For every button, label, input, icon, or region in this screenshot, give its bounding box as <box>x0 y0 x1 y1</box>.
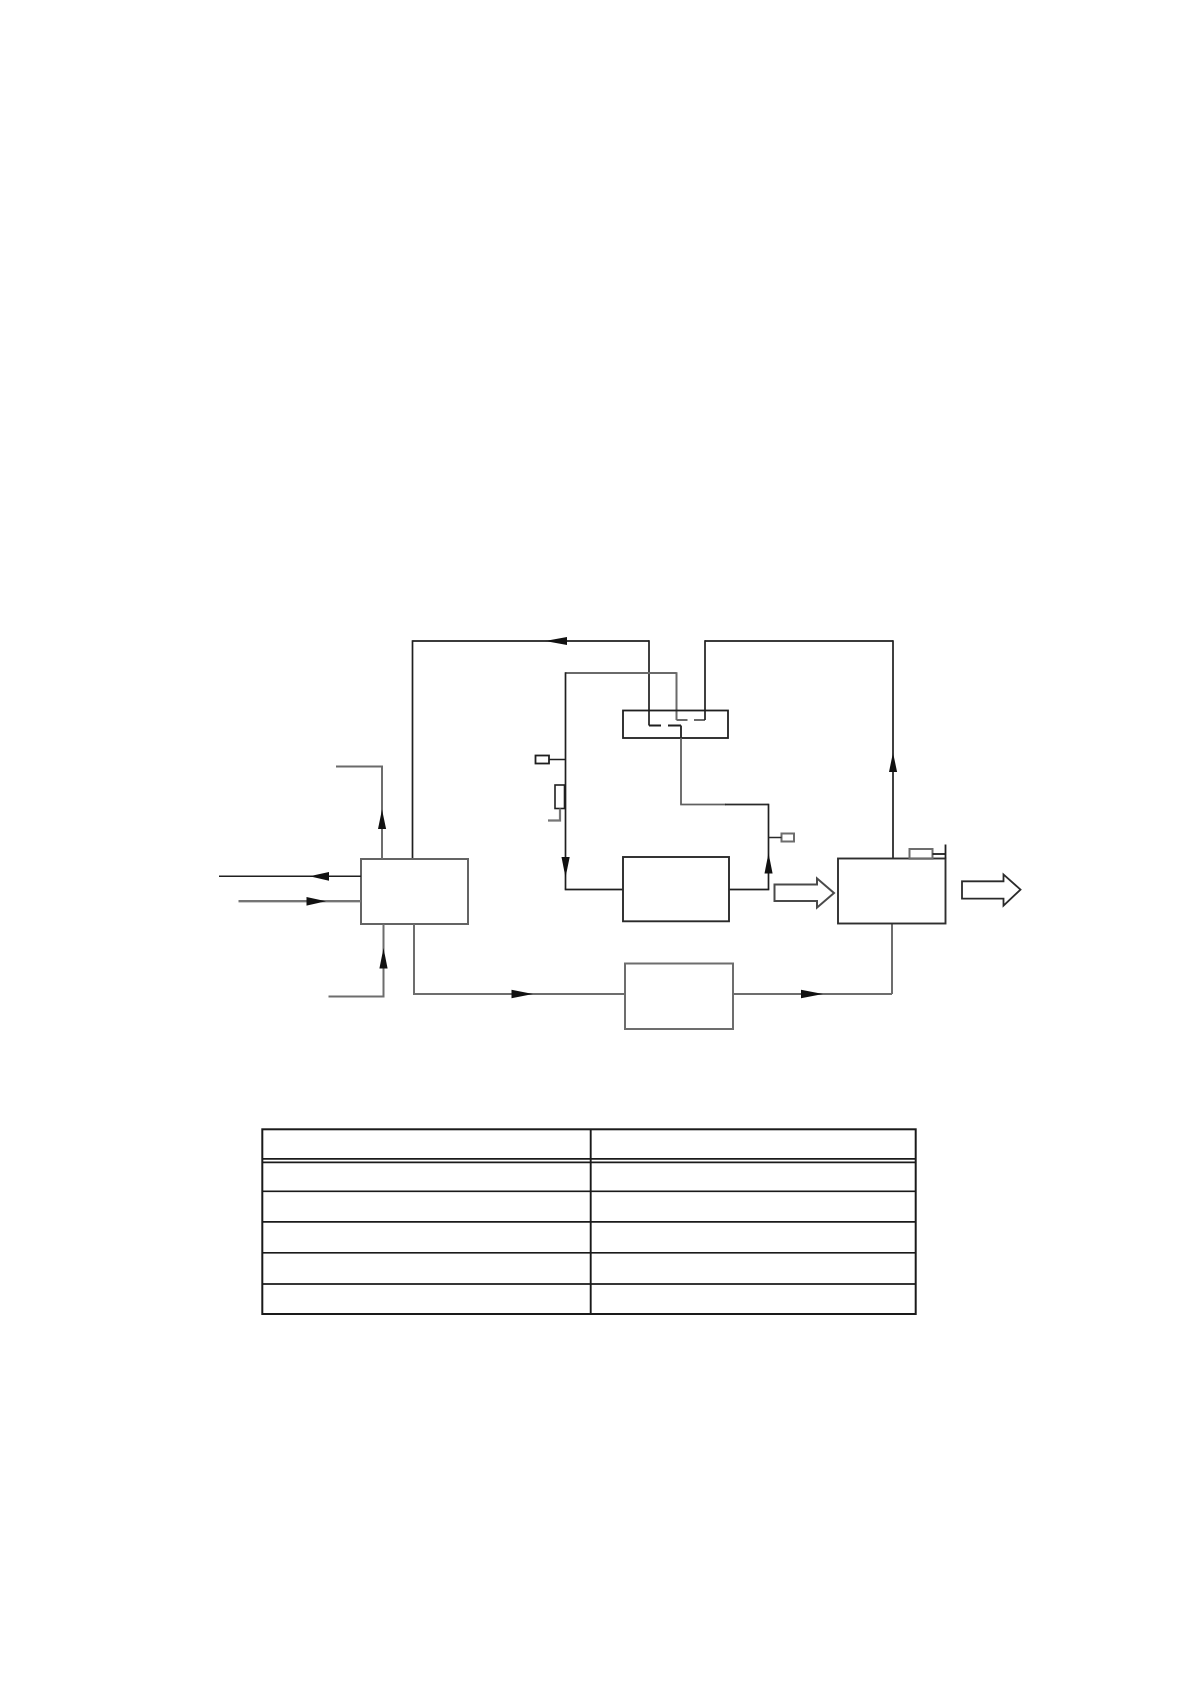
wire: vertical x383.5 below left box <box>383 924 385 997</box>
arrowhead left on top return line <box>545 637 567 645</box>
nozzle box on right unit top <box>910 849 933 859</box>
wire: I2 connector <box>769 837 782 839</box>
wire: vertical x565.5 down to middle box inlet <box>565 672 567 889</box>
wire: vertical x412.5 down to left box <box>412 640 414 859</box>
table row rule 3 <box>262 1221 915 1223</box>
arrowhead up on x893 <box>889 753 897 773</box>
table column divider <box>590 1129 592 1314</box>
wire: horizontal y889.5 into middle box <box>565 889 623 891</box>
instrument box I2 <box>782 834 795 842</box>
exchanger box (top dashed box) <box>623 711 728 739</box>
wire: horizontal y673 <box>566 672 677 674</box>
table row rule 2 <box>262 1190 915 1192</box>
wire: left inlet y901.2 <box>239 900 362 902</box>
arrowhead up on x768.5 <box>765 853 773 874</box>
wire: I1 connector <box>549 759 566 761</box>
wire: top-right line y641 <box>705 640 893 642</box>
arrowhead right on bottom line right <box>801 990 823 999</box>
arrowhead right on bottom line left <box>512 990 534 999</box>
table row rule 5 <box>262 1283 915 1285</box>
valve body V1 <box>555 785 565 809</box>
wire: vertical x681 exchanger bottom outlet <box>680 726 682 740</box>
table outer border <box>262 1129 915 1314</box>
arrowhead up on x382 <box>378 810 386 830</box>
wire: bottom-left stub y996.5 <box>329 996 385 998</box>
wire: nozzle connector <box>933 853 946 855</box>
wire: vertical x676.5 into exchanger <box>676 672 678 720</box>
wire: vent tick x945.5 <box>945 845 947 859</box>
arrowhead right on inlet <box>307 897 327 906</box>
arrowhead left on outlet <box>310 872 330 881</box>
wire: horizontal y804.5 <box>680 804 726 806</box>
wire: top stub y766.5 <box>336 766 383 768</box>
wire: vertical x892 up to right box <box>891 924 893 995</box>
wire: V1 tail hook <box>548 809 560 821</box>
wire: vertical x768.5 down to y889.5 <box>768 804 770 890</box>
table header double rule <box>262 1159 915 1163</box>
wire: horizontal y889.5 from middle box right <box>729 889 769 891</box>
wire: vertical x414 below left box <box>413 924 415 994</box>
wire: bottom line left segment y994 <box>413 993 625 995</box>
arrowhead up on x383.5 <box>379 948 387 969</box>
wire: vertical x382 up from left box <box>381 767 383 860</box>
block arrow: right box outlet <box>962 875 1021 906</box>
middle unit box <box>623 857 729 921</box>
wire: left outlet y876.3 <box>219 875 361 877</box>
wire: bottom line right segment y994 <box>733 993 892 995</box>
table row rule 4 <box>262 1252 915 1254</box>
dashed pass row1 y720 <box>677 719 706 721</box>
dashed pass row2 y725.5 <box>649 725 681 727</box>
wire: vertical x705 exchanger to top line <box>704 640 706 720</box>
wire: vertical x893 down to right box <box>892 640 894 858</box>
instrument box I1 <box>536 756 550 764</box>
block arrow: middle box to right box <box>775 878 835 907</box>
arrowhead down on x565.5 <box>562 857 570 878</box>
right unit box <box>838 859 946 924</box>
wire: top-left return line y641 <box>413 640 650 642</box>
left unit box <box>361 859 468 924</box>
bottom unit box <box>625 964 733 1030</box>
wire: vertical x649 into exchanger top <box>648 640 650 725</box>
